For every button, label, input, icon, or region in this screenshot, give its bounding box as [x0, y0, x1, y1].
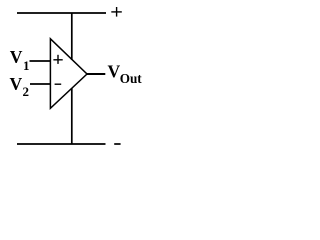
label V1 — [10, 47, 30, 73]
input wire V1 — [30, 60, 51, 62]
label - (negative supply) — [114, 143, 120, 145]
top positive supply rail — [17, 12, 106, 14]
wire from top rail to op-amp top edge — [71, 13, 73, 60]
wire from op-amp bottom edge to bottom rail — [71, 88, 73, 144]
bottom negative supply rail — [17, 143, 106, 145]
svg-text:V: V — [10, 47, 23, 67]
output wire VOut — [87, 73, 105, 75]
label V2 — [10, 74, 30, 99]
op-amp noninverting input marker + — [53, 55, 62, 64]
svg-text:1: 1 — [23, 58, 30, 73]
svg-text:Out: Out — [120, 71, 143, 86]
op-amp inverting input marker - — [55, 83, 62, 85]
label + (positive supply) — [111, 7, 122, 17]
svg-text:2: 2 — [23, 84, 30, 99]
op-amp U1 triangle — [50, 39, 87, 109]
svg-text:V: V — [108, 62, 121, 82]
label VOut — [108, 62, 143, 86]
svg-text:V: V — [10, 74, 23, 94]
input wire V2 — [30, 83, 50, 85]
